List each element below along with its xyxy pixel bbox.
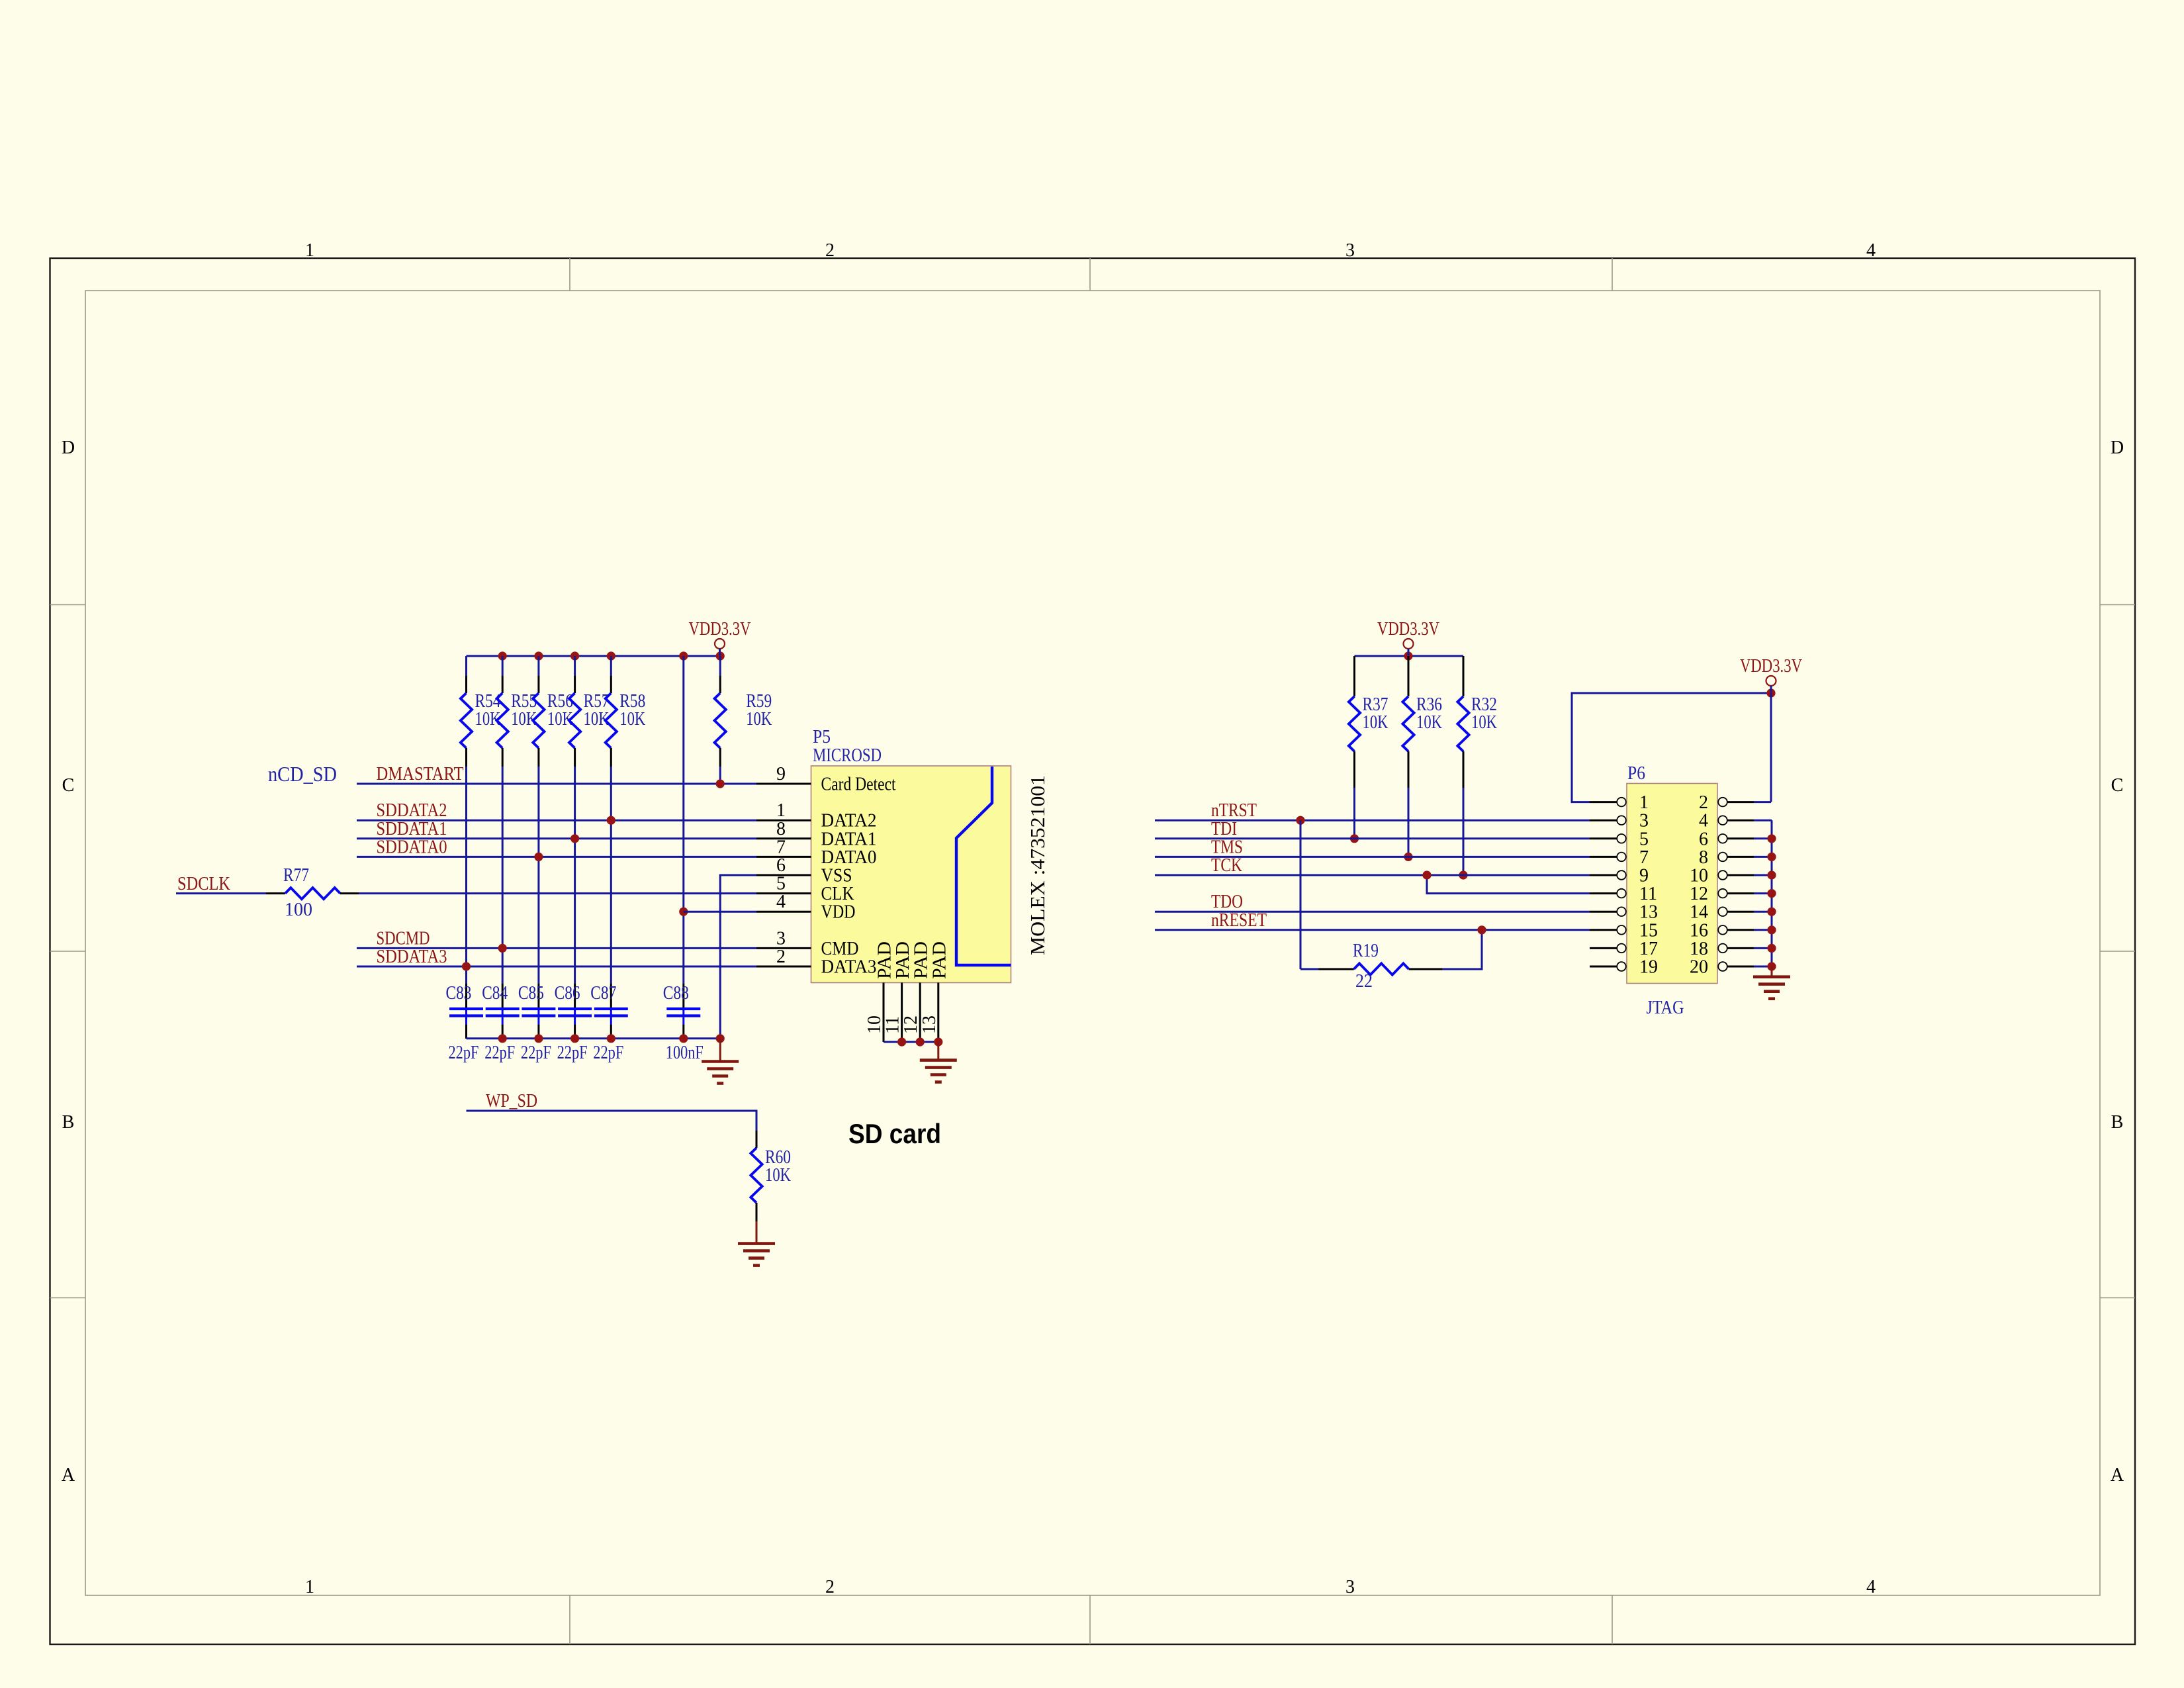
junction <box>607 816 615 825</box>
pin 12 P6 right <box>1690 884 1754 904</box>
svg-text:22pF: 22pF <box>557 1043 588 1063</box>
svg-text:VDD3.3V: VDD3.3V <box>1740 656 1802 677</box>
svg-text:nRESET: nRESET <box>1211 910 1267 931</box>
resistor R59 10K <box>715 676 772 767</box>
pin 17 P6 left <box>1590 939 1658 959</box>
svg-text:SD card: SD card <box>848 1118 941 1149</box>
junction <box>570 651 579 660</box>
svg-text:SDDATA1: SDDATA1 <box>377 819 447 839</box>
wire VSS to ground bus <box>720 875 756 1039</box>
border tick <box>50 1297 86 1299</box>
svg-text:Card Detect: Card Detect <box>821 774 896 795</box>
junction <box>1404 651 1412 660</box>
wire <box>574 656 576 676</box>
svg-text:C86: C86 <box>555 983 580 1004</box>
pin 1 P6 left <box>1590 792 1649 813</box>
wire <box>574 767 576 984</box>
wire TMS <box>1155 856 1590 858</box>
svg-text:C87: C87 <box>590 983 616 1004</box>
pin 15 P6 left <box>1590 920 1658 941</box>
junction <box>570 1034 579 1043</box>
wire nTRST <box>1155 820 1590 821</box>
svg-text:P5: P5 <box>813 727 831 747</box>
svg-text:PAD: PAD <box>875 941 895 979</box>
svg-text:22pF: 22pF <box>593 1043 623 1063</box>
svg-text:D: D <box>62 438 75 458</box>
svg-text:2: 2 <box>1699 792 1708 813</box>
svg-text:D: D <box>2111 438 2124 458</box>
pin 9 Card Detect <box>756 764 896 795</box>
svg-text:22pF: 22pF <box>521 1043 551 1063</box>
junction <box>679 1034 688 1043</box>
junction <box>1767 889 1776 898</box>
svg-text:4: 4 <box>776 892 786 912</box>
svg-text:DMASTART: DMASTART <box>377 764 464 784</box>
wire DMASTART <box>357 783 756 785</box>
capacitor C86 22pF <box>555 983 592 1063</box>
svg-text:PAD: PAD <box>893 941 913 979</box>
wire nRESET <box>1155 929 1590 931</box>
svg-text:C88: C88 <box>663 983 689 1004</box>
pin 19 P6 left <box>1590 957 1658 978</box>
wire pin14 <box>1754 911 1772 913</box>
svg-text:10K: 10K <box>1416 712 1442 733</box>
svg-text:10: 10 <box>864 1015 885 1034</box>
border tick <box>2100 951 2135 952</box>
border tick <box>569 258 570 291</box>
svg-text:10K: 10K <box>765 1165 791 1186</box>
pin 11 PAD <box>883 941 914 1042</box>
border tick <box>2100 1297 2135 1299</box>
resistor R32 10K <box>1457 656 1497 788</box>
resistor R56 10K <box>533 676 573 767</box>
svg-text:100: 100 <box>285 900 312 920</box>
wire VDD pin4 <box>684 911 756 913</box>
resistor R57 10K <box>569 676 610 767</box>
pin 10 PAD <box>864 941 895 1042</box>
wire SDDATA1 <box>357 837 756 839</box>
capacitor C84 22pF <box>482 983 520 1063</box>
svg-text:R19: R19 <box>1353 941 1379 961</box>
wire VDD to pin2 <box>1770 693 1772 802</box>
border tick <box>1612 258 1613 291</box>
junction <box>1459 870 1467 879</box>
junction <box>679 651 688 660</box>
wire <box>502 767 504 984</box>
svg-text:100nF: 100nF <box>666 1043 704 1063</box>
svg-text:1: 1 <box>305 240 314 261</box>
svg-text:7: 7 <box>776 837 786 857</box>
junction <box>716 779 725 788</box>
wire pin10 <box>1754 874 1772 876</box>
wire WP_SD <box>467 1111 757 1131</box>
svg-text:6: 6 <box>776 855 786 876</box>
resistor R77 100 <box>266 865 359 920</box>
svg-text:12: 12 <box>901 1015 921 1034</box>
power VDD3.3V <box>1377 619 1439 656</box>
wire ground chain <box>1771 820 1773 966</box>
svg-text:11: 11 <box>883 1016 903 1034</box>
junction <box>607 1034 615 1043</box>
svg-text:P6: P6 <box>1627 763 1645 784</box>
svg-text:4: 4 <box>1866 1577 1876 1597</box>
svg-text:3: 3 <box>1345 1577 1355 1597</box>
svg-text:4: 4 <box>1699 811 1708 831</box>
svg-text:20: 20 <box>1690 957 1708 978</box>
wire <box>1353 788 1355 839</box>
svg-text:C: C <box>62 775 75 796</box>
capacitor C87 22pF <box>590 983 628 1063</box>
capacitor C85 22pF <box>518 983 556 1063</box>
ground <box>738 1221 775 1266</box>
svg-text:PAD: PAD <box>929 941 950 979</box>
pin 9 P6 left <box>1590 866 1649 886</box>
junction <box>1767 870 1776 879</box>
connector P5 MICROSD body <box>811 766 1011 983</box>
svg-text:WP_SD: WP_SD <box>486 1091 537 1111</box>
svg-text:22pF: 22pF <box>484 1043 515 1063</box>
svg-text:9: 9 <box>776 764 786 784</box>
svg-text:3: 3 <box>1345 240 1355 261</box>
junction <box>607 651 615 660</box>
svg-text:14: 14 <box>1690 902 1708 923</box>
pin 8 DATA1 <box>756 819 877 850</box>
svg-text:SDDATA0: SDDATA0 <box>377 837 447 857</box>
pin 1 DATA2 <box>756 800 877 831</box>
junction <box>570 834 579 843</box>
svg-text:1: 1 <box>1639 792 1649 813</box>
pin 13 P6 left <box>1590 902 1658 923</box>
wire SDDATA3 <box>357 966 756 968</box>
wire to R19 <box>1300 820 1302 969</box>
capacitor C83 22pF <box>446 983 484 1063</box>
svg-text:B: B <box>2111 1112 2124 1133</box>
svg-text:SDCLK: SDCLK <box>177 874 230 894</box>
junction <box>716 1034 725 1043</box>
svg-text:12: 12 <box>1690 884 1708 904</box>
wire <box>719 767 721 784</box>
svg-text:C83: C83 <box>446 983 472 1004</box>
border tick <box>1612 1595 1613 1644</box>
pin 5 P6 left <box>1590 829 1649 849</box>
border inner frame <box>85 291 2100 1595</box>
svg-text:PAD: PAD <box>911 941 932 979</box>
resistor R36 10K <box>1402 656 1442 788</box>
wire TDI <box>1155 837 1590 839</box>
resistor R55 10K <box>497 676 537 767</box>
wire pin20 <box>1754 966 1772 968</box>
junction <box>1350 834 1359 843</box>
svg-text:2: 2 <box>776 947 786 967</box>
wire <box>719 656 721 676</box>
wire pin12 <box>1754 892 1772 894</box>
svg-text:9: 9 <box>1639 866 1649 886</box>
resistor R54 10K <box>461 676 501 767</box>
svg-text:1: 1 <box>305 1577 314 1597</box>
border outer frame <box>50 258 2136 1644</box>
svg-text:R77: R77 <box>283 865 309 886</box>
border tick <box>2100 604 2135 606</box>
ground <box>702 1039 739 1084</box>
wire pin4 <box>1754 820 1772 821</box>
svg-text:10K: 10K <box>619 709 645 729</box>
wire <box>465 656 467 676</box>
border tick <box>1089 258 1091 291</box>
junction <box>498 944 507 953</box>
svg-text:SDDATA2: SDDATA2 <box>377 800 447 821</box>
pin 5 CLK <box>756 874 854 905</box>
junction <box>534 651 543 660</box>
junction <box>1767 908 1776 916</box>
svg-text:SDCMD: SDCMD <box>377 928 430 949</box>
pin 10 P6 right <box>1690 866 1754 886</box>
junction <box>1767 853 1776 861</box>
power VDD3.3V <box>689 619 751 656</box>
junction <box>1767 834 1776 843</box>
wire TDO <box>1155 911 1590 913</box>
svg-text:22: 22 <box>1355 971 1373 992</box>
svg-text:TCK: TCK <box>1211 855 1242 876</box>
svg-text:3: 3 <box>776 928 786 949</box>
svg-text:SDDATA3: SDDATA3 <box>377 947 447 967</box>
connector P6 JTAG body <box>1627 784 1717 984</box>
svg-text:1: 1 <box>776 800 786 821</box>
wire pin6 <box>1754 837 1772 839</box>
svg-text:7: 7 <box>1639 847 1649 868</box>
junction <box>498 651 507 660</box>
svg-text:JTAG: JTAG <box>1647 998 1684 1018</box>
pin 4 P6 right <box>1699 811 1754 831</box>
junction <box>534 853 543 861</box>
svg-text:8: 8 <box>776 819 786 839</box>
svg-text:3: 3 <box>1639 811 1649 831</box>
svg-text:A: A <box>62 1465 75 1485</box>
wire TCK <box>1155 874 1590 876</box>
svg-text:C85: C85 <box>518 983 544 1004</box>
border tick <box>1089 1595 1091 1644</box>
svg-text:VDD3.3V: VDD3.3V <box>689 619 751 639</box>
resistor R37 10K <box>1349 656 1388 788</box>
junction <box>1404 853 1412 861</box>
svg-text:nCD_SD: nCD_SD <box>268 762 337 786</box>
svg-text:16: 16 <box>1690 920 1708 941</box>
wire pin16 <box>1754 929 1772 931</box>
resistor R58 10K <box>606 676 646 767</box>
wire <box>502 656 504 676</box>
junction <box>462 962 471 970</box>
wire CLK <box>359 892 756 894</box>
wire <box>610 656 612 676</box>
junction <box>679 908 688 916</box>
pin 6 VSS <box>756 855 852 886</box>
pin 2 P6 right <box>1699 792 1754 813</box>
svg-text:15: 15 <box>1639 920 1658 941</box>
svg-text:TDI: TDI <box>1211 819 1237 839</box>
capacitor C88 100nF <box>663 983 704 1063</box>
pin 3 P6 left <box>1590 811 1649 831</box>
junction <box>1422 870 1431 879</box>
svg-text:6: 6 <box>1699 829 1708 849</box>
svg-text:TMS: TMS <box>1211 837 1243 857</box>
pin 14 P6 right <box>1690 902 1754 923</box>
wire <box>537 656 539 676</box>
svg-text:B: B <box>62 1112 75 1133</box>
wire VDD3.3V top bus <box>467 655 721 657</box>
svg-text:5: 5 <box>776 874 786 894</box>
resistor R19 22 <box>1319 941 1443 992</box>
wire <box>465 767 467 984</box>
wire R19 to nRESET <box>1443 930 1482 969</box>
SD card outline graphic <box>956 767 1011 965</box>
svg-text:10: 10 <box>1690 866 1708 886</box>
wire pin18 <box>1754 947 1772 949</box>
pin 3 CMD <box>756 928 859 959</box>
svg-text:A: A <box>2111 1465 2124 1485</box>
junction <box>934 1037 942 1046</box>
junction <box>498 1034 507 1043</box>
svg-text:nTRST: nTRST <box>1211 800 1257 821</box>
junction <box>1477 925 1486 934</box>
svg-text:22pF: 22pF <box>449 1043 479 1063</box>
wire <box>1408 788 1410 857</box>
power VDD3.3V right <box>1740 656 1802 693</box>
pin 7 DATA0 <box>756 837 877 868</box>
pin 16 P6 right <box>1690 920 1754 941</box>
wire pin1 to VDD <box>1572 693 1771 802</box>
svg-text:2: 2 <box>825 1577 835 1597</box>
svg-text:11: 11 <box>1639 884 1657 904</box>
svg-text:2: 2 <box>825 240 835 261</box>
svg-text:13: 13 <box>919 1015 940 1034</box>
resistor R60 10K <box>751 1131 791 1221</box>
junction <box>1767 944 1776 953</box>
wire <box>537 767 539 984</box>
pin 7 P6 left <box>1590 847 1649 868</box>
svg-text:10K: 10K <box>1471 712 1497 733</box>
svg-text:19: 19 <box>1639 957 1658 978</box>
wire <box>1463 788 1465 875</box>
border tick <box>50 951 86 952</box>
wire pin8 <box>1754 856 1772 858</box>
svg-text:18: 18 <box>1690 939 1708 959</box>
wire pin2 <box>1754 801 1771 803</box>
svg-text:10K: 10K <box>1363 712 1388 733</box>
svg-text:C84: C84 <box>482 983 508 1004</box>
svg-text:DATA3: DATA3 <box>821 957 877 978</box>
ground <box>920 1042 957 1082</box>
svg-text:VDD: VDD <box>821 902 856 923</box>
junction <box>716 651 725 660</box>
svg-text:13: 13 <box>1639 902 1658 923</box>
pin 2 DATA3 <box>756 947 877 978</box>
wire <box>1300 968 1319 970</box>
pin 8 P6 right <box>1699 847 1754 868</box>
wire VDD bus JTAG <box>1355 655 1464 657</box>
wire SDDATA0 <box>357 856 756 858</box>
svg-text:17: 17 <box>1639 939 1658 959</box>
wire pad bus <box>884 1041 938 1043</box>
wire SDDATA2 <box>357 820 756 821</box>
svg-text:4: 4 <box>1866 240 1876 261</box>
wire RTCK jog <box>1427 875 1590 894</box>
junction <box>897 1037 906 1046</box>
wire SDCLK <box>176 892 266 894</box>
pin 11 P6 left <box>1590 884 1657 904</box>
junction <box>916 1037 925 1046</box>
pin 6 P6 right <box>1699 829 1754 849</box>
wire ground bus <box>467 1037 721 1039</box>
pin 20 P6 right <box>1690 957 1754 978</box>
junction <box>1767 925 1776 934</box>
junction <box>534 1034 543 1043</box>
wire <box>610 767 612 984</box>
wire SDCMD <box>357 947 756 949</box>
svg-text:MICROSD: MICROSD <box>813 745 882 766</box>
ground <box>1753 966 1790 999</box>
svg-text:8: 8 <box>1699 847 1708 868</box>
svg-text:MOLEX :473521001: MOLEX :473521001 <box>1026 775 1049 955</box>
pin 18 P6 right <box>1690 939 1754 959</box>
wire <box>682 656 684 984</box>
pin 13 PAD <box>919 941 950 1042</box>
pin 12 PAD <box>901 941 932 1042</box>
svg-text:C: C <box>2111 775 2124 796</box>
junction <box>1766 688 1775 697</box>
border tick <box>569 1595 570 1644</box>
svg-text:10K: 10K <box>746 709 772 729</box>
svg-text:TDO: TDO <box>1211 892 1243 912</box>
pin 4 VDD <box>756 892 856 923</box>
svg-text:VDD3.3V: VDD3.3V <box>1377 619 1439 639</box>
junction <box>1296 816 1304 825</box>
border tick <box>50 604 86 606</box>
svg-text:5: 5 <box>1639 829 1649 849</box>
junction <box>1767 962 1776 970</box>
